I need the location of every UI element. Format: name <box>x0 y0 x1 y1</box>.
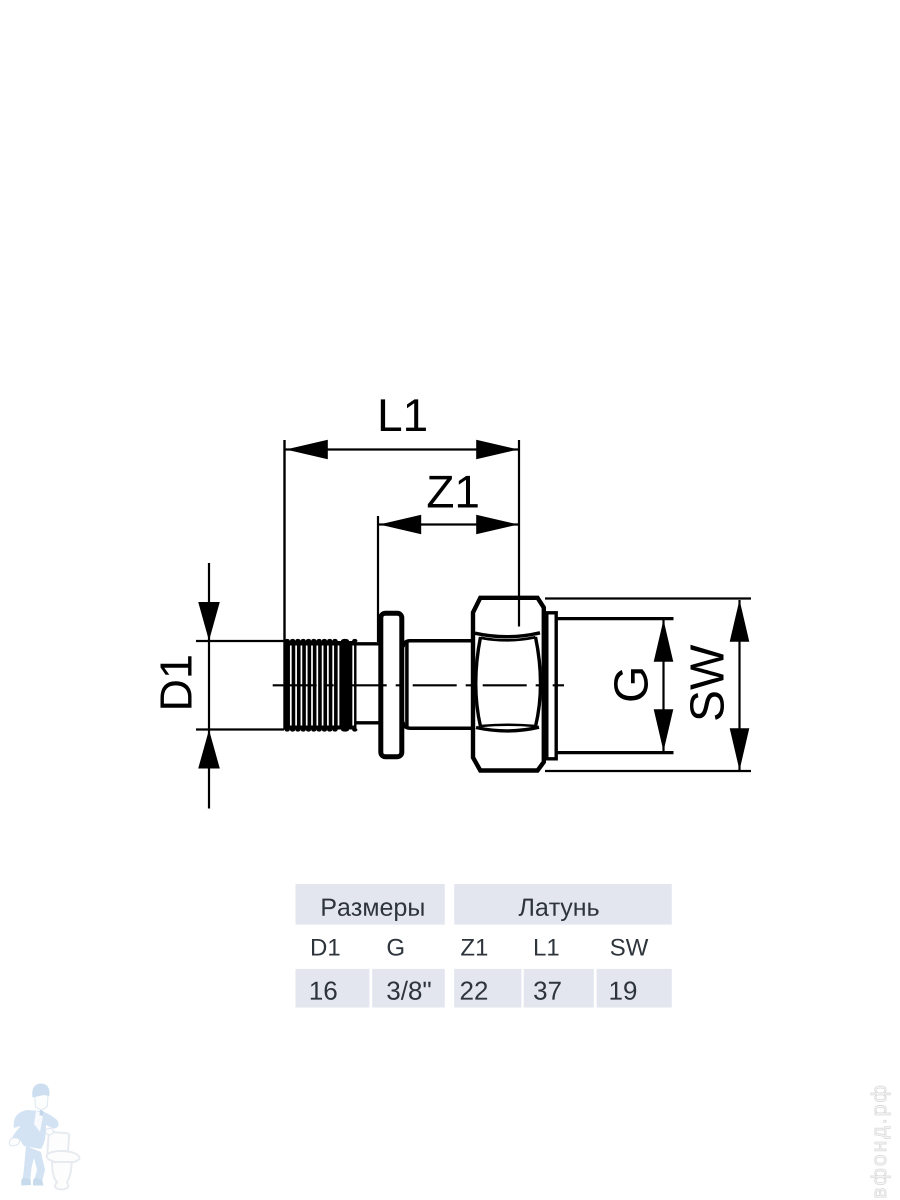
male thread end <box>556 619 674 753</box>
pipe left end edge / L1 left extension line <box>283 440 285 730</box>
table header text <box>322 899 598 921</box>
D1 dimension <box>161 563 285 809</box>
table header row background: Latun group <box>454 884 672 925</box>
plumber left forearm <box>12 1127 28 1144</box>
plumber face <box>35 1094 49 1110</box>
Z1 dimension <box>378 476 518 642</box>
table value text <box>311 981 636 1000</box>
plumber torso jacket <box>14 1110 59 1149</box>
ribbed push-fit end <box>285 639 358 732</box>
cylinder between flange and hex nut <box>403 641 474 728</box>
plumber cap <box>32 1083 49 1097</box>
table value row backgrounds <box>296 969 370 1008</box>
watermark site text <box>871 1086 891 1197</box>
collar ring between hex nut and thread <box>547 613 556 759</box>
hex nut <box>473 598 544 771</box>
smooth pipe section between ribs and flange <box>355 644 379 723</box>
table column header text <box>312 939 648 956</box>
watermark logo: plumber with toilet <box>9 1083 80 1189</box>
SW dimension <box>545 599 751 772</box>
plumber shoes <box>21 1178 31 1186</box>
plumber right hand on tank <box>46 1128 54 1134</box>
centerline <box>273 684 564 686</box>
toilet bowl and base <box>52 1162 72 1190</box>
plumber left hand <box>9 1138 20 1146</box>
plumber chest shirt <box>34 1111 44 1132</box>
toilet tank <box>47 1132 69 1156</box>
G dimension <box>614 620 673 751</box>
flange collar <box>381 613 402 756</box>
toilet seat <box>46 1150 80 1164</box>
L1 dimension <box>286 399 520 626</box>
plumber legs <box>23 1146 46 1183</box>
table header row background: Razmery group <box>296 884 445 925</box>
plumber bowtie <box>40 1110 44 1116</box>
